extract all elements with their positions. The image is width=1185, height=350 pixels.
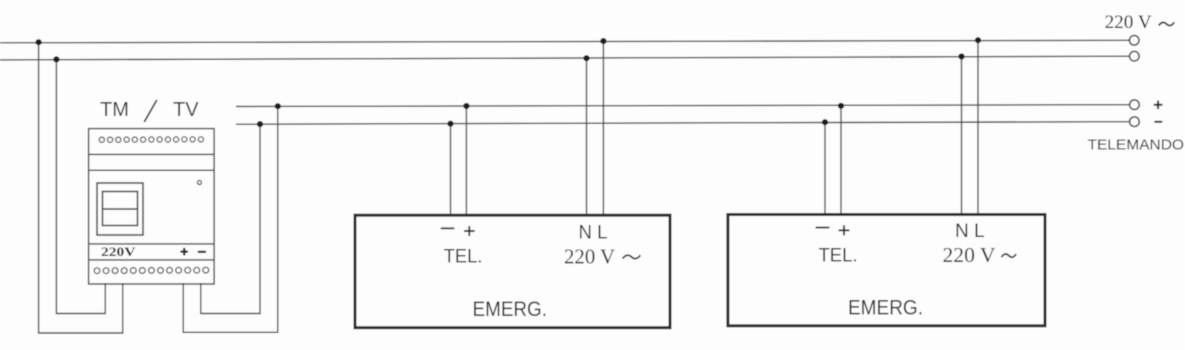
svg-text:TEL.: TEL. <box>819 246 858 267</box>
svg-text:N L: N L <box>955 221 985 242</box>
svg-text:220V: 220V <box>101 244 136 259</box>
svg-text:N L: N L <box>579 223 608 244</box>
svg-text:TV: TV <box>173 99 199 121</box>
svg-text:EMERG.: EMERG. <box>473 298 548 321</box>
svg-text:TELEMANDO: TELEMANDO <box>1088 136 1185 153</box>
svg-text:220 V: 220 V <box>943 243 996 267</box>
svg-text:TM: TM <box>100 99 129 121</box>
svg-text:EMERG.: EMERG. <box>848 297 923 320</box>
svg-text:220 V: 220 V <box>1105 12 1152 33</box>
svg-text:TEL.: TEL. <box>444 247 483 268</box>
svg-text:220 V: 220 V <box>564 245 615 269</box>
